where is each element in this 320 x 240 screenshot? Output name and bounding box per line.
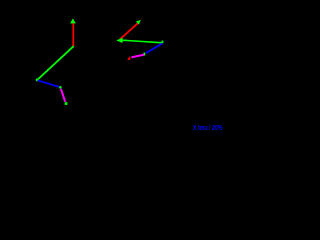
right pendulum: red vector shaft (120, 23, 139, 40)
left pendulum: green joint dot (59, 86, 62, 89)
left pendulum: green arrowhead up (70, 18, 76, 23)
right pendulum: green arrowhead up-right (136, 20, 141, 25)
svg-text:X tmu / 20%: X tmu / 20% (193, 123, 223, 132)
left pendulum: magenta link 3 (61, 89, 65, 102)
left pendulum: red vector shaft (72, 23, 74, 46)
right pendulum: green tick joint marker (144, 53, 146, 56)
right pendulum: green tick at base (162, 41, 164, 44)
right pendulum: magenta link (131, 55, 144, 58)
right pendulum: blue link (146, 43, 163, 53)
left pendulum: blue link 2 (38, 80, 60, 87)
right pendulum: green horizontal arrow shaft (123, 40, 163, 43)
right pendulum: red arrowhead down-left (127, 56, 131, 60)
right pendulum: green left arrowhead (116, 38, 122, 43)
left pendulum: green link 1 (37, 46, 73, 80)
left pendulum: green joint blob (36, 78, 39, 81)
left pendulum: green square end marker (65, 102, 68, 105)
